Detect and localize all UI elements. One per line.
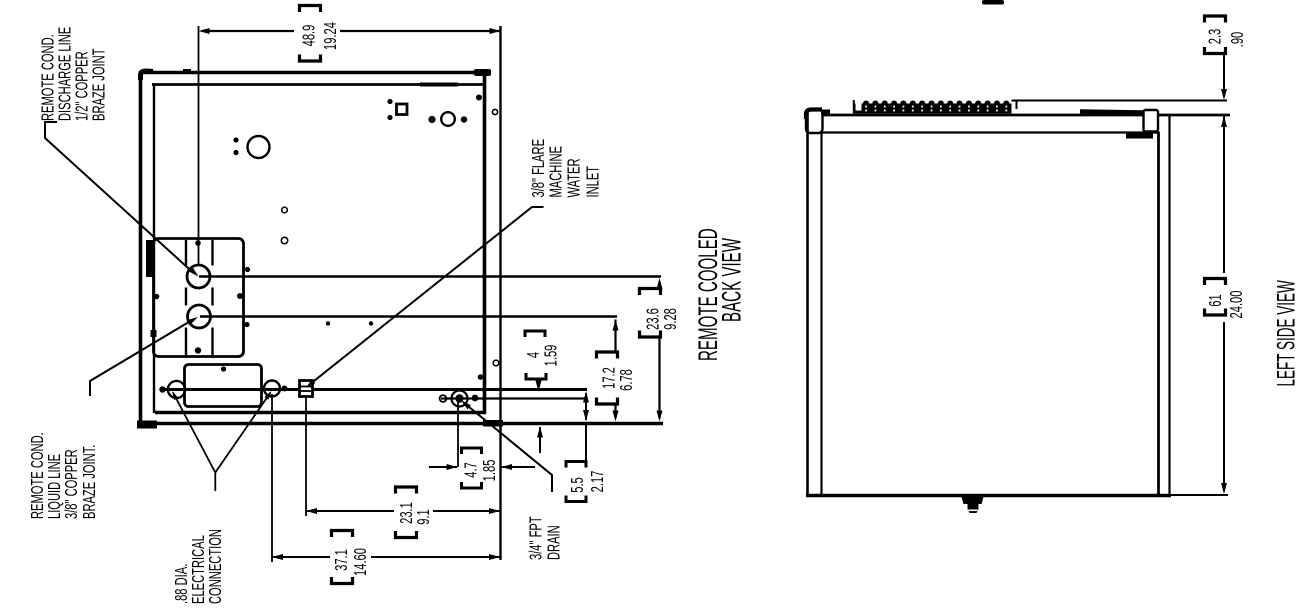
back view cabinet outer right edge / extension line xyxy=(499,26,501,560)
side view cap shadow bar xyxy=(1126,133,1153,139)
side view left outer edge xyxy=(806,112,809,496)
liquid line level xyxy=(200,315,617,317)
dim 23.6 bracket bottom xyxy=(640,331,661,338)
plate screw top xyxy=(195,240,201,246)
svg-text:CONNECTION: CONNECTION xyxy=(205,529,225,604)
drain extension line xyxy=(457,402,459,467)
drain right dot xyxy=(472,395,479,402)
svg-text:24.00: 24.00 xyxy=(1226,291,1246,319)
side view inner top edge xyxy=(822,131,1158,133)
electrical hole left dot xyxy=(159,386,165,392)
side view top thick segment xyxy=(1080,112,1145,113)
water inlet leader xyxy=(309,207,544,385)
discharge label leader xyxy=(45,122,193,273)
back view bottom-right corner xyxy=(483,420,503,427)
back view cabinet inner top edge xyxy=(152,83,486,86)
svg-text:2.17: 2.17 xyxy=(587,471,607,493)
mid dots pair xyxy=(326,321,330,325)
dim 2.3 line xyxy=(1223,54,1225,90)
hole dot pair upper xyxy=(233,137,238,142)
svg-text:INLET: INLET xyxy=(583,166,603,198)
electrical hole left ring xyxy=(168,381,185,398)
dim 4 bracket bottom xyxy=(526,373,546,379)
dim 61 bracket bottom xyxy=(1205,309,1226,316)
svg-text:2.3: 2.3 xyxy=(1205,29,1225,45)
top right screw xyxy=(476,95,482,101)
knockout slot left line xyxy=(185,240,187,266)
svg-text:LEFT SIDE VIEW: LEFT SIDE VIEW xyxy=(1273,280,1300,386)
dim 5.5 double arrow xyxy=(583,392,589,403)
knockout plate xyxy=(154,239,244,357)
condenser grille xyxy=(853,104,1012,114)
svg-text:14.60: 14.60 xyxy=(350,548,370,576)
dim 4 arrow lower xyxy=(537,427,543,438)
dim 61 line xyxy=(1223,322,1225,487)
dim 48.9 bracket top xyxy=(300,6,321,13)
plate screw left xyxy=(154,294,160,300)
bottom knockout strip line xyxy=(160,388,587,391)
top edge partial mark xyxy=(982,0,1004,5)
ring on right edge xyxy=(493,360,499,366)
hole row dot right xyxy=(461,116,467,122)
dim 4.7 bracket bottom xyxy=(462,482,482,488)
electrical junction box xyxy=(185,365,262,407)
junction box screw xyxy=(221,366,226,371)
svg-text:4.7: 4.7 xyxy=(461,462,481,478)
drain small ring xyxy=(440,395,447,402)
knockout slot right line xyxy=(211,240,213,266)
small ring lower xyxy=(281,237,287,243)
back view cabinet outer bottom edge xyxy=(138,422,663,425)
dim 2.3 bracket bottom xyxy=(1205,47,1226,54)
plate screw bottom xyxy=(195,347,201,353)
electrical hole right dot xyxy=(282,386,288,392)
dim 4.7 line left xyxy=(429,466,457,468)
square knockout xyxy=(397,104,408,115)
svg-text:BRAZE JOINT.: BRAZE JOINT. xyxy=(79,445,99,519)
dim 48.9 extension line left xyxy=(198,26,200,265)
svg-text:9.1: 9.1 xyxy=(413,509,433,525)
dim 4 line upper xyxy=(538,379,540,383)
plate right dot lower xyxy=(244,322,249,327)
back view cabinet outer left edge xyxy=(139,71,143,426)
square knockout dots xyxy=(387,99,392,104)
grille right end tick xyxy=(1016,101,1018,109)
dim 48.9 line xyxy=(208,30,294,32)
dim 17.2 bracket top xyxy=(597,352,618,359)
plate screw right xyxy=(237,293,243,299)
svg-text:9.28: 9.28 xyxy=(660,308,680,330)
side view left inner edge xyxy=(820,133,822,496)
dim 2.3 bracket top xyxy=(1205,16,1226,23)
svg-text:WATER: WATER xyxy=(564,158,584,197)
dim 4.7 bracket top xyxy=(462,448,482,454)
electrical V leader tail xyxy=(214,473,216,492)
svg-text:19.24: 19.24 xyxy=(320,22,340,50)
plate right dot upper xyxy=(245,267,250,272)
dim 17.2 line xyxy=(614,404,616,418)
back view cabinet inner bottom edge xyxy=(155,411,486,414)
dim 37.1 line xyxy=(272,554,283,560)
dim 61 arrow top xyxy=(1221,116,1227,127)
dim 23.6 line xyxy=(658,337,660,418)
dim 17.2 bracket bottom xyxy=(597,398,618,405)
back view top-left corner round xyxy=(141,71,154,80)
electrical V leader left branch xyxy=(173,393,215,473)
dim 48.9 bracket bottom xyxy=(300,55,321,62)
side view right inner edge xyxy=(1157,132,1160,497)
liquid label leader xyxy=(90,320,193,397)
back view left edge weld bar xyxy=(146,240,154,277)
discharge knockout circle xyxy=(187,265,210,288)
side view right corner cap xyxy=(1144,110,1159,132)
inlet extension line xyxy=(305,397,307,516)
side view left corner cap xyxy=(806,110,823,134)
svg-text:.90: .90 xyxy=(1227,32,1247,48)
side view bottom edge xyxy=(806,494,1171,497)
side view right outer edge xyxy=(1168,115,1170,496)
dim 4 bracket top xyxy=(525,331,545,337)
water inlet fitting square xyxy=(300,381,313,397)
dim 37.1 bracket bottom xyxy=(332,577,353,584)
drain bullseye xyxy=(452,391,468,407)
electrical V leader right branch xyxy=(215,393,270,473)
svg-text:DRAIN: DRAIN xyxy=(544,525,564,560)
svg-text:5.5: 5.5 xyxy=(567,477,587,493)
svg-text:1.59: 1.59 xyxy=(541,345,561,367)
small ring upper xyxy=(282,207,288,213)
svg-text:61: 61 xyxy=(1205,294,1225,306)
dim 4.7 line right xyxy=(501,464,512,470)
dim 5.5 bracket bottom xyxy=(566,496,586,502)
svg-text:BRAZE JOINT: BRAZE JOINT xyxy=(89,48,109,121)
back view cabinet inner right edge xyxy=(483,70,487,413)
back view left edge tick xyxy=(151,330,157,337)
dim 23.6 arrow top xyxy=(657,278,663,289)
ring extension line xyxy=(271,394,273,562)
drain level line xyxy=(441,397,587,399)
back view cabinet inner top thick segment xyxy=(420,83,458,87)
dim 23.1 bracket bottom xyxy=(396,531,417,538)
right edge small ring xyxy=(492,109,497,114)
dim 23.1 line xyxy=(306,508,317,514)
dim 17.2 arrow top xyxy=(613,320,619,331)
side view top edge xyxy=(820,114,1230,117)
svg-text:6.78: 6.78 xyxy=(616,369,636,391)
large hole circle xyxy=(248,136,270,158)
hole row dot left xyxy=(428,116,435,123)
grille top line extended xyxy=(1012,100,1228,102)
back view cabinet inner left edge xyxy=(153,84,155,413)
svg-text:BACK VIEW: BACK VIEW xyxy=(716,238,747,322)
dim 23.1 bracket top xyxy=(396,487,417,494)
svg-text:48.9: 48.9 xyxy=(299,25,319,47)
side view drain fitting xyxy=(962,497,984,513)
svg-text:1.85: 1.85 xyxy=(479,460,499,482)
hole row ring xyxy=(441,112,455,126)
electrical hole right ring xyxy=(264,381,280,397)
drain leader xyxy=(463,402,552,492)
dim 37.1 bracket top xyxy=(332,531,353,538)
dim 61 bracket top xyxy=(1205,279,1226,286)
back view top edge tick xyxy=(183,69,191,74)
dot above drain xyxy=(478,374,484,380)
liquid knockout circle xyxy=(188,305,211,328)
back view cabinet outer top edge xyxy=(139,71,490,74)
svg-text:37.1: 37.1 xyxy=(331,549,351,571)
discharge line level xyxy=(199,275,661,277)
back view cabinet top-right corner xyxy=(474,69,491,76)
dim 23.6 bracket top xyxy=(640,289,661,296)
dim 5.5 bracket top xyxy=(566,462,586,468)
back view bottom-left corner xyxy=(137,421,157,429)
